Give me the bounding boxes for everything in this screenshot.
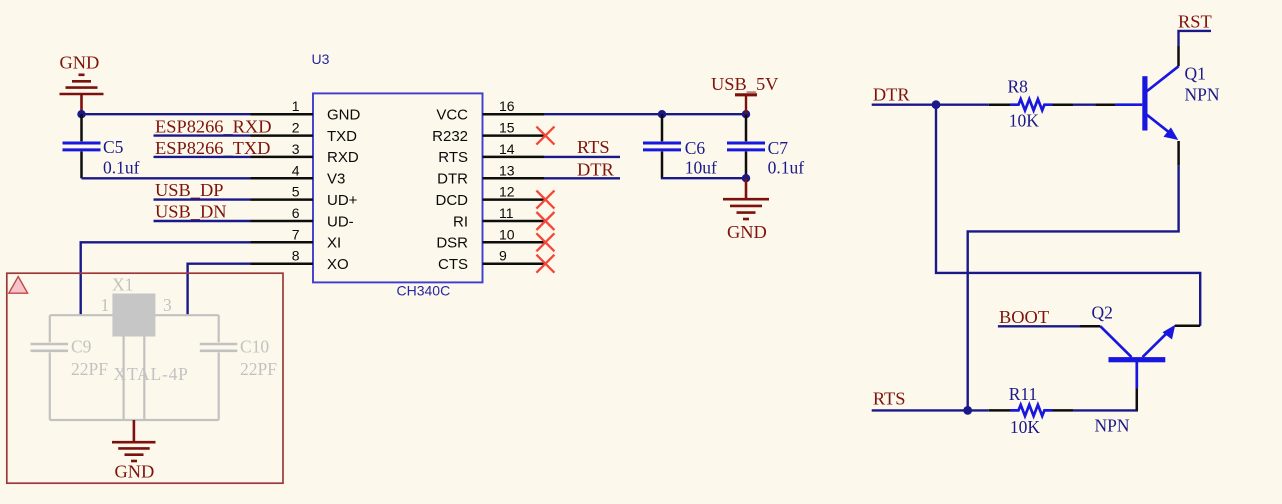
U3 pin 5 stub (left) [251, 198, 314, 201]
svg-text:0.1uf: 0.1uf [103, 158, 140, 178]
svg-text:3: 3 [292, 141, 300, 157]
node: junction at C7 top [742, 110, 750, 118]
capacitor C6 [661, 114, 664, 141]
selection rectangle around crystal block [7, 273, 283, 483]
wire: pin13 DTR stub [544, 177, 620, 179]
wire: Q1 emitter down-left-down to RTS junction [968, 166, 1179, 411]
svg-text:RTS: RTS [577, 137, 610, 157]
svg-text:GND: GND [327, 107, 361, 124]
U3 pin 12 stub (right) [483, 198, 545, 201]
svg-text:10: 10 [499, 226, 515, 242]
svg-text:UD+: UD+ [327, 192, 358, 209]
svg-text:11: 11 [499, 205, 514, 221]
svg-text:XO: XO [327, 256, 349, 273]
svg-text:XTAL-4P: XTAL-4P [114, 364, 189, 384]
svg-text:GND: GND [727, 222, 767, 242]
transistor Q2 NPN (rotated) [1080, 325, 1175, 411]
wire: Q1 collector to RST [1179, 31, 1212, 46]
svg-text:5: 5 [292, 184, 300, 200]
wire: C5 bottom to U3 pin4 (V3) [82, 177, 251, 179]
svg-text:Q1: Q1 [1185, 64, 1206, 84]
svg-text:R11: R11 [1009, 384, 1038, 404]
svg-text:USB_DP: USB_DP [155, 180, 223, 200]
svg-text:ESP8266_TXD: ESP8266_TXD [155, 138, 270, 158]
node: DTR junction dot [932, 100, 941, 109]
crystal X1 bottom pins [122, 336, 124, 420]
node: RTS junction dot [963, 406, 972, 415]
svg-text:16: 16 [499, 98, 515, 114]
svg-text:XI: XI [327, 235, 341, 252]
U3 pin 6 stub (left) [251, 220, 314, 223]
svg-text:6: 6 [292, 205, 300, 221]
svg-text:RTS: RTS [438, 149, 468, 166]
U3 pin 4 stub (left) [251, 177, 314, 180]
svg-text:15: 15 [499, 120, 515, 136]
node: junction C7 bottom / GND [742, 174, 750, 182]
svg-text:RI: RI [453, 213, 468, 230]
svg-text:DTR: DTR [873, 85, 911, 105]
svg-text:TXD: TXD [327, 128, 357, 145]
resistor R8 [989, 103, 1010, 106]
svg-text:22PF: 22PF [71, 359, 108, 379]
U3 pin 7 stub (left) [251, 241, 314, 244]
svg-text:NPN: NPN [1095, 416, 1130, 436]
svg-text:CTS: CTS [438, 256, 468, 273]
U3 pin 3 stub (left) [251, 156, 314, 159]
svg-text:USB_5V: USB_5V [711, 74, 779, 94]
svg-text:UD-: UD- [327, 213, 354, 230]
svg-text:10uf: 10uf [685, 158, 717, 178]
svg-text:DCD: DCD [436, 192, 469, 209]
wire: DTR junction down and across to Q2 emitter [936, 105, 1200, 326]
svg-text:13: 13 [499, 162, 515, 178]
svg-text:C7: C7 [768, 138, 789, 158]
U3 pin 14 stub (right) [483, 156, 545, 159]
U3 pin 1 stub (left) [251, 113, 314, 116]
wire: GND junction to U3 pin1 [82, 113, 251, 115]
wire: pin16 VCC to C7 [544, 113, 746, 115]
svg-text:C6: C6 [685, 138, 706, 158]
capacitor C5 [80, 114, 83, 141]
svg-text:10K: 10K [1009, 111, 1039, 131]
U3 pin 16 stub (right) [483, 113, 545, 116]
svg-text:12: 12 [499, 184, 515, 200]
svg-text:USB_DN: USB_DN [155, 201, 227, 221]
wire: ESP8266_RXD to pin2 [154, 134, 251, 136]
svg-text:NPN: NPN [1185, 84, 1220, 104]
svg-text:R232: R232 [432, 128, 468, 145]
wire: DTR to R8 [872, 103, 989, 105]
U3 pin 2 stub (left) [251, 134, 314, 137]
svg-text:DSR: DSR [436, 235, 468, 252]
crystal X1 body [112, 294, 155, 337]
wire (gray): crystal bottom rail [50, 419, 219, 421]
svg-text:R8: R8 [1008, 76, 1029, 96]
svg-text:3: 3 [163, 295, 172, 315]
wire: Q1 emitter pin [1177, 141, 1180, 166]
svg-text:C5: C5 [103, 137, 124, 157]
svg-text:RXD: RXD [327, 149, 359, 166]
warning triangle marker [9, 277, 28, 294]
op-amp U3 CH340C chip body [313, 93, 483, 282]
capacitor C7 [745, 114, 748, 141]
svg-text:X1: X1 [112, 275, 133, 295]
ground symbol under C7 [723, 178, 769, 219]
svg-text:1: 1 [292, 98, 300, 114]
ground symbol (top-left, flipped) [60, 75, 104, 114]
svg-text:GND: GND [60, 53, 100, 73]
svg-text:GND: GND [115, 462, 155, 482]
capacitor C9 (gray) [49, 315, 51, 342]
svg-text:9: 9 [499, 248, 507, 264]
svg-text:ESP8266_RXD: ESP8266_RXD [155, 117, 272, 137]
wire: Q2 emitter pin to corner [1175, 325, 1200, 328]
U3 pin 9 stub (right) [483, 262, 545, 265]
svg-text:7: 7 [292, 226, 300, 242]
svg-text:0.1uf: 0.1uf [768, 158, 805, 178]
svg-text:DTR: DTR [577, 159, 615, 179]
svg-text:10K: 10K [1010, 417, 1041, 437]
svg-text:VCC: VCC [436, 107, 468, 124]
svg-text:22PF: 22PF [240, 359, 277, 379]
wire: USB_DN to pin6 [154, 220, 251, 222]
svg-text:2: 2 [292, 120, 300, 136]
capacitor C10 (gray) [218, 315, 220, 342]
svg-text:RTS: RTS [873, 389, 906, 409]
U3 pin 13 stub (right) [483, 177, 545, 180]
svg-text:14: 14 [499, 141, 515, 157]
svg-text:C9: C9 [71, 336, 92, 356]
svg-text:CH340C: CH340C [397, 283, 451, 299]
svg-text:C10: C10 [240, 336, 269, 356]
wire: pin14 RTS stub [544, 156, 620, 158]
wire: BOOT to Q2 collector [998, 325, 1080, 327]
node: junction at C6 top [658, 110, 666, 118]
wire: USB_DP to pin5 [154, 198, 251, 200]
wire: XI pin7 to crystal pin1 [81, 242, 251, 315]
svg-text:1: 1 [101, 295, 110, 315]
svg-text:DTR: DTR [437, 171, 468, 188]
U3 pin 11 stub (right) [483, 220, 545, 223]
svg-text:4: 4 [292, 162, 300, 178]
no-connect X on pin 11 [536, 212, 554, 230]
U3 pin 10 stub (right) [483, 241, 545, 244]
no-connect X on pin 12 [536, 191, 554, 209]
wire: RTS to R11 [872, 409, 989, 411]
transistor Q1 NPN [1095, 46, 1178, 140]
no-connect X on pin 10 [536, 233, 554, 251]
node: junction dot GND/C5/pin1 [77, 110, 85, 118]
svg-text:U3: U3 [312, 51, 330, 67]
wire: C6 bottom to C7 bottom [662, 177, 746, 180]
svg-text:BOOT: BOOT [999, 307, 1049, 327]
wire (gray): crystal top rail [50, 314, 219, 316]
wire: ESP8266_TXD to pin3 [154, 156, 251, 158]
ground symbol under crystal [112, 420, 156, 461]
U3 pin 8 stub (left) [251, 262, 314, 265]
no-connect X on pin 15 [536, 127, 554, 145]
svg-text:Q2: Q2 [1092, 303, 1113, 323]
U3 pin 15 stub (right) [483, 134, 545, 137]
wire: R8 to Q1 base [1073, 103, 1095, 105]
wire: R11 to Q2 base [1073, 388, 1136, 410]
svg-text:RST: RST [1178, 11, 1212, 31]
resistor R11 [989, 409, 1010, 412]
svg-text:V3: V3 [327, 171, 345, 188]
svg-text:8: 8 [292, 248, 300, 264]
wire: XO pin8 to crystal pin3 [188, 264, 251, 316]
no-connect X on pin 9 [536, 255, 554, 273]
